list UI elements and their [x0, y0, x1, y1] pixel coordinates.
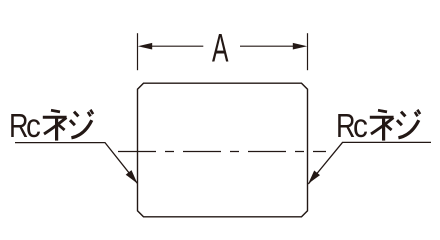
- left label: katakana NE: [43, 110, 67, 140]
- dimension line right segment: [240, 45, 294, 47]
- right leader line: [308, 142, 431, 184]
- svg-text:c: c: [26, 108, 41, 145]
- right label: katakana NE: [370, 110, 394, 140]
- extension line right: [307, 33, 309, 70]
- right label: katakana JI: [397, 110, 420, 138]
- centerline (dash-dot axis): [118, 151, 326, 153]
- dimension arrow right: [293, 43, 307, 50]
- dimension line left segment: [152, 45, 204, 47]
- left leader line: [15, 143, 138, 184]
- right leader arrowhead: [308, 171, 320, 184]
- left leader arrowhead: [126, 170, 138, 183]
- svg-text:c: c: [353, 108, 368, 145]
- svg-text:A: A: [212, 26, 228, 70]
- dimension arrow left: [138, 43, 152, 50]
- extension line left: [137, 33, 139, 70]
- socket body outline (chamfered rectangle): [138, 83, 308, 217]
- left label: katakana JI: [70, 110, 93, 138]
